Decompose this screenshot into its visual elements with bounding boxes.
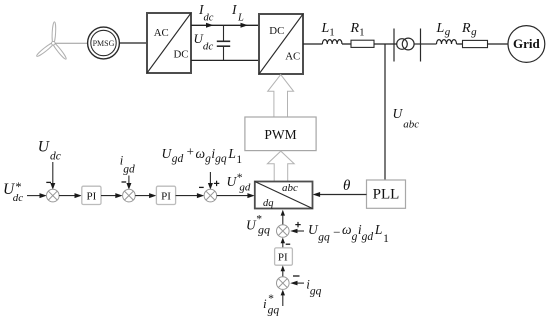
svg-text:PMSG: PMSG (93, 39, 115, 48)
arrowhead into PI1 (75, 193, 82, 198)
minus sign at sum3 (199, 186, 204, 188)
block PWM (245, 117, 316, 151)
transformer T (394, 29, 437, 62)
summing junction sum2 (123, 189, 136, 202)
arrowhead into sum4 right (290, 229, 297, 234)
arrowhead into sum1 (40, 193, 47, 198)
svg-text:AC: AC (154, 27, 169, 39)
wire inverter output (303, 43, 323, 45)
inductor Lg (437, 40, 457, 44)
arrowhead up into sum4 bottom (281, 238, 285, 244)
summing junction sum4 (277, 225, 290, 238)
wire U_dc down to sum1 (52, 162, 54, 185)
wire L1 to R1 (342, 43, 351, 45)
svg-text:θ: θ (343, 178, 351, 194)
wire dc-link bottom (191, 59, 259, 61)
wire Lg to Rg (457, 43, 463, 45)
wire i_gq into sum5 (297, 282, 305, 284)
wind turbine blade lower-left (36, 41, 55, 57)
arrowhead down into sum2 (126, 183, 131, 190)
minus sign at sum5 (293, 275, 300, 277)
wire dc-link top (191, 24, 259, 26)
svg-text:DC: DC (269, 25, 284, 37)
wire sum3 to transform block (217, 195, 250, 197)
wind turbine shaft wire (55, 42, 88, 44)
arrowhead into sum5 right (290, 281, 297, 286)
svg-text:Grid: Grid (513, 36, 540, 51)
plus sign at sum3 (214, 181, 219, 186)
wire PMSG to AC/DC (119, 42, 147, 44)
generator PMSG (88, 27, 120, 59)
block PLL (367, 180, 406, 208)
controller PI3 (275, 248, 293, 265)
wire Rg to Grid (488, 43, 509, 45)
minus sign below sum4 (286, 243, 291, 245)
wire PI1 to sum2 (101, 195, 118, 197)
inductor L1 (322, 40, 342, 44)
wire sum1 to PI1 (59, 195, 77, 197)
wire i_gd down to sum2 (128, 176, 130, 186)
wire PI3 up to sum4 (282, 243, 284, 248)
arrowhead into sum3 (197, 193, 204, 198)
controller PI1 (82, 186, 101, 204)
wind turbine hub (52, 41, 56, 45)
hollow arrow PWM to DC/AC (268, 75, 294, 117)
arrowhead up into sum5 bottom (281, 290, 285, 296)
transform block abc/dq (255, 182, 313, 209)
wire PI2 to sum3 (176, 195, 200, 197)
resistor R1 (351, 40, 374, 47)
wire feedforward down to sum3 (209, 172, 211, 185)
resistor Rg (463, 40, 488, 47)
wire i*_gq up into sum5 (282, 295, 284, 306)
controller PI2 (156, 186, 175, 204)
minus sign at sum1 (46, 181, 51, 183)
svg-text:abc: abc (282, 182, 298, 194)
svg-text:PI: PI (161, 191, 171, 203)
wind turbine blade up (36, 22, 68, 60)
svg-text:DC: DC (174, 48, 189, 60)
summing junction sum1 (47, 189, 60, 202)
Grid source (508, 26, 545, 63)
svg-text:AC: AC (285, 50, 300, 62)
arrowhead into sum2 (115, 193, 122, 198)
arrowhead into dq/abc right (313, 192, 321, 197)
svg-text:PI: PI (278, 252, 288, 264)
hollow arrow dq/abc to PWM (267, 151, 294, 181)
arrowhead I_L (241, 23, 249, 28)
summing junction sum5 (277, 277, 290, 290)
converter AC/DC (machine-side rectifier) (147, 13, 191, 73)
wire PLL to transform block (318, 194, 367, 196)
svg-text:PWM: PWM (264, 127, 296, 142)
svg-text:PI: PI (87, 191, 97, 203)
summing junction sum3 (204, 189, 217, 202)
svg-text:dq: dq (263, 198, 274, 209)
arrowhead into PI2 (149, 193, 156, 198)
capacitor C dc-link (217, 25, 230, 60)
wire sum4 up to transform block (282, 215, 284, 225)
wire R1 to transformer (374, 43, 397, 45)
wire U_gq feedforward into sum4 (297, 230, 305, 232)
wind turbine blade lower-right (51, 41, 67, 60)
minus sign at sum2 (122, 181, 127, 183)
wire sum5 up to PI3 (282, 271, 284, 277)
arrowhead up into PI3 bottom (281, 265, 285, 271)
wire U*dc to sum1 (27, 195, 42, 197)
plus sign at sum4 (295, 222, 300, 227)
converter DC/AC (grid-side inverter) (259, 14, 303, 74)
node junction U_abc tap (384, 44, 386, 180)
svg-text:PLL: PLL (373, 186, 400, 202)
arrowhead I_dc (206, 23, 214, 28)
arrowhead up into transform block bottom (281, 210, 285, 216)
arrowhead into transform block left (247, 193, 254, 198)
arrowhead down into sum1 (50, 183, 55, 190)
wire sum2 to PI2 (135, 195, 151, 197)
arrowhead down into sum3 (208, 183, 213, 190)
